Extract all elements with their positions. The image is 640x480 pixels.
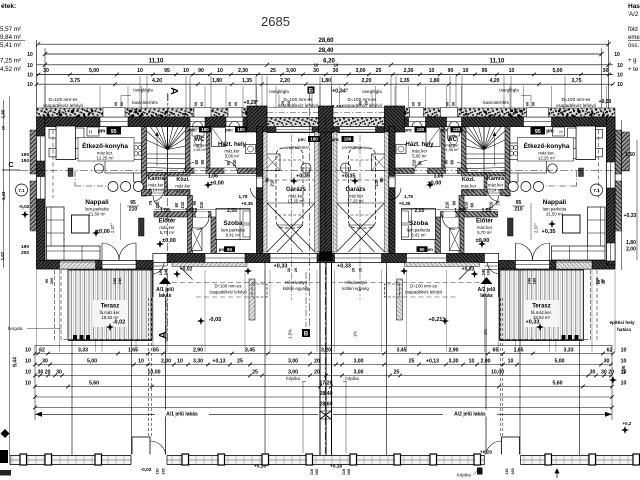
svg-text:210: 210 — [445, 201, 450, 209]
section line A lower — [165, 300, 167, 342]
svg-text:10: 10 — [617, 72, 623, 78]
svg-text:Előtér: Előtér — [158, 219, 176, 225]
shower — [212, 128, 226, 147]
wardrobe x-box — [192, 228, 203, 251]
coffee table — [72, 215, 90, 233]
svg-text:90: 90 — [418, 160, 423, 165]
svg-text:+0,18: +0,18 — [330, 464, 342, 470]
svg-text:1,35: 1,35 — [242, 78, 252, 84]
svg-text:2,30: 2,30 — [238, 68, 248, 74]
wc fixture — [448, 128, 460, 136]
svg-text:±0,00: ±0,00 — [96, 229, 110, 235]
exterior hatch left of west wall — [615, 130, 622, 174]
garage west wall — [389, 127, 395, 255]
walkway gate gaps — [131, 455, 167, 466]
svg-text:60: 60 — [200, 102, 204, 106]
svg-text:5,70 m²: 5,70 m² — [160, 230, 175, 235]
wc window in north wall — [447, 117, 462, 127]
svg-text:4,20: 4,20 — [489, 78, 499, 84]
entry door opening — [485, 254, 499, 263]
svg-text:-0,02: -0,02 — [19, 204, 30, 210]
svg-text:95: 95 — [516, 200, 522, 206]
understair line — [487, 192, 505, 194]
wc door arc — [457, 163, 468, 174]
svg-text:180: 180 — [417, 127, 425, 132]
svg-text:WC: WC — [195, 137, 206, 143]
svg-text:80: 80 — [379, 177, 384, 183]
svg-text:Közl.: Közl. — [176, 177, 190, 183]
svg-text:210: 210 — [270, 179, 275, 187]
eloter/szoba vertical wall — [188, 196, 193, 255]
svg-text:100: 100 — [486, 268, 491, 275]
svg-text:1,5%: 1,5% — [288, 329, 293, 339]
svg-text:20: 20 — [314, 358, 320, 364]
pendant circles — [534, 182, 544, 192]
svg-text:+0,35: +0,35 — [542, 229, 556, 235]
bed — [216, 209, 250, 240]
stair winder fan — [147, 140, 168, 150]
garage axis dash-dot — [359, 135, 361, 300]
svg-text:2685: 2685 — [261, 14, 290, 29]
svg-text:17,25 m²: 17,25 m² — [288, 199, 306, 204]
svg-text:1,98 m²: 1,98 m² — [193, 148, 207, 152]
svg-text:240: 240 — [527, 277, 532, 284]
szoba west wall lower — [211, 217, 217, 254]
kitchen zone dash-dot boundary — [74, 171, 76, 186]
svg-text:építési hely: építési hely — [609, 320, 634, 325]
svg-text:3,30: 3,30 — [448, 358, 458, 364]
svg-text:10: 10 — [27, 63, 33, 69]
svg-text:+0,2: +0,2 — [623, 421, 632, 426]
entry steps — [485, 265, 499, 267]
svg-text:folyóka: folyóka — [457, 473, 471, 478]
svg-text:+0,33: +0,33 — [526, 320, 540, 326]
svg-text:1,80: 1,80 — [626, 240, 636, 246]
hazt window in north wall — [226, 117, 243, 127]
svg-text:7.1: 7.1 — [593, 188, 600, 193]
threshold hatch under nappali — [60, 262, 96, 269]
understair line — [147, 192, 165, 194]
svg-text:4,43: 4,43 — [1, 191, 6, 200]
svg-text:pm:: pm: — [298, 137, 307, 142]
7.1 markers — [16, 184, 28, 196]
east wall window corrections — [607, 117, 616, 265]
hob box H — [553, 127, 565, 136]
hazt door arc — [225, 161, 238, 174]
svg-text:210: 210 — [412, 159, 417, 167]
svg-text:60: 60 — [452, 102, 456, 106]
entry canopy diagonal — [174, 261, 193, 280]
svg-text:10: 10 — [469, 358, 475, 364]
extension lines below building — [614, 270, 616, 352]
svg-text:60: 60 — [234, 102, 238, 106]
svg-text:165: 165 — [315, 469, 319, 475]
center-top inset: white strip over garage — [326, 107, 385, 117]
interior dim line — [402, 209, 498, 211]
svg-text:csapadékvíz lefolyó: csapadékvíz lefolyó — [43, 103, 84, 108]
svg-text:60: 60 — [412, 102, 416, 106]
svg-text:+0,20: +0,20 — [480, 450, 492, 456]
svg-text:B: B — [304, 332, 309, 338]
svg-text:üveglégla: üveglégla — [133, 88, 153, 93]
svg-text:+0,13: +0,13 — [426, 358, 439, 364]
svg-text:2,55: 2,55 — [415, 208, 425, 214]
top dimension chain rows — [38, 43, 609, 45]
garage-hazt door arc — [251, 188, 263, 200]
svg-text:1,06: 1,06 — [434, 174, 444, 180]
kitchen counter east — [510, 143, 518, 182]
svg-text:240: 240 — [163, 268, 168, 275]
tv cabinet — [508, 218, 514, 236]
wall kozl/nappali — [462, 190, 511, 196]
svg-text:étek:: étek: — [1, 3, 16, 10]
svg-text:25: 25 — [376, 68, 382, 74]
entry recess east wall — [501, 269, 503, 297]
svg-text:5,57 m²: 5,57 m² — [0, 26, 21, 33]
svg-text:5,06 m²: 5,06 m² — [412, 154, 427, 159]
entry path dashes — [502, 298, 504, 436]
svg-text:kültéri egység: kültéri egység — [342, 286, 369, 291]
svg-text:1,025: 1,025 — [185, 208, 198, 214]
svg-text:90: 90 — [600, 278, 605, 283]
garage mid dashed line — [337, 179, 385, 181]
svg-text:határa: határa — [617, 327, 631, 332]
svg-text:Hőszivattyú: Hőszivattyú — [285, 280, 308, 285]
nappali dim vline — [120, 203, 122, 240]
kamra door arc — [154, 190, 164, 202]
entry door arc — [153, 263, 164, 274]
svg-text:65: 65 — [493, 347, 499, 353]
terrace deck — [68, 270, 152, 340]
wc door arc — [184, 163, 195, 174]
svg-text:60: 60 — [174, 202, 179, 207]
gravel strip along north facade — [326, 108, 615, 117]
svg-text:10: 10 — [25, 369, 31, 375]
walkway texture ticks — [11, 456, 13, 464]
svg-text:62: 62 — [39, 347, 45, 353]
svg-text:WC: WC — [447, 137, 458, 143]
section line A upper dash — [167, 94, 169, 108]
car dashed outline — [276, 148, 303, 228]
eloter/szoba vertical wall — [459, 196, 464, 255]
nappali south window parapet — [556, 261, 592, 270]
gravel strip along north facade — [37, 108, 326, 117]
kamra door arc — [488, 190, 498, 202]
svg-text:C: C — [8, 162, 13, 169]
svg-text:Szoba: Szoba — [223, 220, 243, 227]
svg-text:üveglégla: üveglégla — [269, 89, 289, 94]
garage door opening — [335, 254, 382, 263]
svg-text:7,25 m²: 7,25 m² — [0, 58, 21, 65]
wall below wc/hazt — [186, 168, 257, 174]
svg-text:10: 10 — [25, 358, 31, 364]
kitchen label box — [518, 138, 574, 162]
svg-text:2,20: 2,20 — [280, 78, 290, 84]
party wall foot solid — [319, 252, 333, 262]
svg-text:25: 25 — [237, 358, 243, 364]
svg-text:60: 60 — [194, 102, 198, 106]
garage side hatch strips full height — [263, 132, 267, 252]
svg-text:3,00: 3,00 — [355, 68, 365, 74]
svg-text:A/1 jelű lakás: A/1 jelű lakás — [166, 412, 198, 418]
window wells in gravel band — [103, 108, 125, 118]
svg-text:D=100 mm-es: D=100 mm-es — [49, 97, 79, 102]
svg-text:-0,02: -0,02 — [141, 467, 152, 473]
svg-text:9,44: 9,44 — [13, 357, 19, 367]
heat pump unit dashed — [252, 284, 267, 297]
svg-text:180: 180 — [201, 127, 209, 132]
nappali south window parapet — [60, 261, 96, 270]
svg-text:10: 10 — [621, 369, 627, 375]
svg-text:11,10: 11,10 — [149, 59, 164, 65]
svg-text:90: 90 — [200, 159, 205, 164]
svg-text:190: 190 — [21, 244, 29, 250]
svg-text:±0,00: ±0,00 — [210, 181, 224, 187]
svg-text:folyóka: folyóka — [345, 376, 359, 381]
svg-text:5,41 m²: 5,41 m² — [0, 42, 21, 49]
svg-text:90: 90 — [198, 68, 204, 74]
svg-text:+0,02: +0,02 — [180, 267, 193, 273]
svg-text:2,00: 2,00 — [161, 358, 171, 364]
svg-text:17,25 m²: 17,25 m² — [347, 199, 365, 204]
svg-text:240: 240 — [481, 268, 486, 275]
svg-text:+0,33: +0,33 — [462, 267, 475, 273]
svg-text:30: 30 — [313, 68, 319, 74]
svg-text:5,70 m²: 5,70 m² — [477, 230, 492, 235]
svg-text:2,20: 2,20 — [361, 78, 371, 84]
svg-text:12,25 m²: 12,25 m² — [97, 156, 115, 161]
svg-text:9,41 m²: 9,41 m² — [226, 233, 241, 238]
svg-text:Terasz: Terasz — [101, 304, 120, 310]
svg-text:máz.ker: máz.ker — [193, 144, 207, 148]
section line B lower — [305, 272, 307, 327]
svg-text:Has: Has — [628, 3, 640, 10]
svg-text:D=100 mm-es: D=100 mm-es — [410, 284, 437, 289]
svg-text:210: 210 — [180, 201, 185, 209]
svg-text:+ te: + te — [628, 67, 639, 73]
nappali bay south wall — [37, 261, 154, 270]
svg-text:1,05: 1,05 — [160, 208, 170, 214]
exterior hatch left of west wall — [30, 130, 37, 174]
svg-text:90: 90 — [444, 159, 449, 164]
svg-text:60: 60 — [418, 102, 422, 106]
svg-text:1,80: 1,80 — [212, 78, 222, 84]
svg-text:+0,35: +0,35 — [342, 174, 356, 180]
garage west wall pier — [247, 106, 267, 132]
svg-text:1,35: 1,35 — [399, 78, 409, 84]
svg-text:kavicsterítés: kavicsterítés — [132, 100, 158, 105]
svg-text:60: 60 — [358, 100, 363, 105]
north exterior wall — [395, 117, 607, 127]
svg-text:lakás: lakás — [159, 293, 172, 299]
west wall window upper — [607, 136, 616, 161]
svg-text:95: 95 — [535, 129, 541, 135]
stair arrow line — [494, 132, 496, 166]
svg-text:2,90: 2,90 — [193, 347, 203, 353]
svg-text:240: 240 — [117, 277, 122, 284]
extension lines above building — [44, 86, 46, 108]
svg-text:+0,35: +0,35 — [296, 174, 310, 180]
svg-text:10,00: 10,00 — [491, 369, 504, 375]
garage inner X small — [277, 225, 303, 252]
level star marks — [92, 229, 100, 237]
svg-text:10: 10 — [25, 380, 31, 386]
nappali french door opening — [516, 261, 550, 270]
party wall (half) — [326, 117, 332, 260]
svg-text:2,55: 2,55 — [227, 208, 237, 214]
svg-text:25: 25 — [270, 68, 276, 74]
svg-text:165: 165 — [347, 469, 351, 475]
svg-text:1,79: 1,79 — [404, 194, 413, 199]
svg-text:10: 10 — [621, 347, 627, 353]
west wall window lower — [37, 177, 46, 200]
svg-text:+0,33: +0,33 — [337, 264, 351, 270]
coffee table — [563, 215, 581, 233]
svg-text:10,00: 10,00 — [148, 369, 161, 375]
svg-text:110: 110 — [156, 468, 160, 474]
garage west wall door gap — [389, 177, 395, 188]
svg-text:165: 165 — [162, 468, 166, 474]
apartment extent arrows — [35, 413, 318, 415]
svg-text:Kamra: Kamra — [147, 176, 165, 182]
shower — [426, 128, 440, 147]
svg-text:10: 10 — [1, 125, 6, 130]
wc/hazt divider — [207, 127, 211, 169]
right margin dimension labels — [621, 120, 623, 270]
french door leaves — [533, 243, 550, 260]
sofa bottom — [552, 246, 606, 260]
kamra north wall — [147, 173, 191, 177]
svg-text:+0,33: +0,33 — [624, 213, 637, 219]
lamp circle — [548, 164, 557, 173]
svg-text:5,60: 5,60 — [89, 380, 99, 386]
svg-text:10: 10 — [617, 82, 623, 88]
svg-text:padlásfeljáró: padlásfeljáró — [342, 145, 365, 150]
svg-text:D=100 mm-es: D=100 mm-es — [562, 97, 592, 102]
section line A full — [167, 93, 169, 342]
svg-text:2,90: 2,90 — [448, 347, 458, 353]
kitchen L counter — [105, 160, 142, 174]
stair lower treads — [466, 153, 505, 155]
kitchen L counter — [510, 160, 547, 174]
terrace pergola dashed — [500, 269, 591, 340]
svg-text:60: 60 — [470, 202, 475, 207]
svg-text:4,35 m²: 4,35 m² — [461, 189, 476, 194]
svg-text:180: 180 — [310, 137, 318, 142]
svg-text:10: 10 — [25, 347, 31, 353]
szoba south window — [407, 254, 447, 263]
svg-text:210: 210 — [374, 179, 379, 187]
svg-text:60: 60 — [446, 102, 450, 106]
szoba south window — [205, 254, 245, 263]
svg-text:Hőszivattyú: Hőszivattyú — [344, 280, 367, 285]
svg-text:90: 90 — [192, 200, 197, 205]
small fence mark — [0, 470, 11, 476]
garage-hazt door arc — [389, 188, 401, 200]
svg-text:Szoba: Szoba — [409, 220, 429, 227]
svg-text:10: 10 — [314, 63, 319, 68]
svg-text:csapadékvíz lefolyó: csapadékvíz lefolyó — [405, 290, 443, 295]
hazt door arc — [414, 161, 427, 174]
walkway band — [10, 456, 640, 465]
svg-text:180: 180 — [453, 127, 461, 132]
svg-text:H: H — [559, 130, 562, 135]
sofa bottom — [47, 246, 101, 260]
svg-text:Nappali: Nappali — [543, 199, 567, 206]
sill marks — [193, 122, 203, 127]
svg-text:3,00: 3,00 — [353, 358, 363, 364]
stair west wall — [505, 127, 510, 197]
west exterior wall — [607, 117, 616, 265]
szoba west wall lower — [435, 217, 441, 254]
party wall (half) — [320, 117, 326, 260]
wall eloter/szoba horizontal — [154, 212, 211, 218]
svg-text:csapadékvíz lefolyó: csapadékvíz lefolyó — [209, 290, 247, 295]
svg-text:lakás: lakás — [480, 293, 493, 299]
wall lines down to walkway — [579, 341, 581, 456]
kamra/kozl divider wall — [484, 174, 487, 196]
svg-text:Kamra: Kamra — [487, 176, 505, 182]
stair arrow line — [156, 132, 158, 166]
svg-text:9,41 m²: 9,41 m² — [411, 233, 426, 238]
svg-text:180: 180 — [344, 137, 352, 142]
kitchen window in north wall — [100, 117, 128, 127]
garage mid dashed line — [267, 179, 315, 181]
wall kozl/nappali — [142, 190, 191, 196]
svg-text:Közl.: Közl. — [462, 177, 476, 183]
terrace pergola dashed — [61, 269, 152, 340]
rain drain channel — [249, 279, 255, 320]
bottom dimension rows — [35, 353, 612, 355]
tv cabinet — [139, 218, 145, 236]
svg-text:10: 10 — [27, 52, 33, 58]
svg-text:7.1: 7.1 — [18, 188, 25, 193]
sill marks — [449, 122, 459, 127]
svg-text:95: 95 — [111, 129, 117, 135]
svg-text:95: 95 — [164, 68, 170, 74]
svg-text:A/2 jelű lakás: A/2 jelű lakás — [454, 412, 486, 418]
wardrobe x-box — [450, 228, 461, 251]
svg-text:20: 20 — [352, 268, 356, 272]
svg-text:10: 10 — [621, 358, 627, 364]
svg-text:pm: pm — [546, 129, 554, 135]
svg-text:pm:: pm: — [189, 128, 198, 133]
svg-text:10: 10 — [617, 63, 623, 69]
svg-text:3,30: 3,30 — [193, 358, 203, 364]
entry door opening — [153, 254, 167, 263]
svg-text:4,52 m²: 4,52 m² — [0, 66, 21, 73]
svg-text:pm:: pm: — [440, 128, 449, 133]
svg-text:110: 110 — [342, 469, 346, 475]
svg-text:eme: eme — [628, 35, 640, 41]
right outside hatch extra — [622, 132, 630, 171]
svg-text:padlásfeljáró: padlásfeljáró — [287, 145, 310, 150]
svg-text:10: 10 — [138, 358, 144, 364]
szoba door arc — [443, 217, 456, 230]
yard line below terraces — [35, 345, 612, 347]
svg-text:20: 20 — [364, 100, 369, 105]
walkway posts — [20, 454, 27, 465]
svg-text:pm: pm — [98, 129, 106, 135]
svg-text:3,00: 3,00 — [286, 68, 296, 74]
svg-text:90: 90 — [452, 200, 457, 205]
svg-text:4,20: 4,20 — [152, 78, 162, 84]
svg-text:210: 210 — [199, 201, 204, 209]
yard dashed lines — [332, 282, 480, 284]
stair east / wc west wall — [462, 127, 467, 174]
svg-text:+ g: + g — [628, 58, 637, 64]
svg-text:Házt. hely: Házt. hely — [405, 142, 434, 148]
